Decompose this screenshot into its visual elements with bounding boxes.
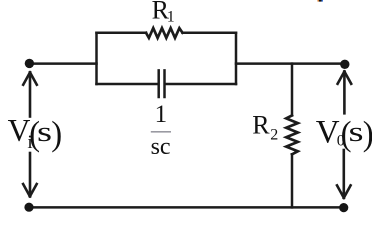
svg-text:): ): [363, 115, 372, 153]
svg-text:sc: sc: [151, 134, 171, 160]
svg-text:): ): [51, 115, 62, 153]
svg-text:1: 1: [167, 9, 175, 26]
svg-text:1: 1: [155, 101, 168, 128]
svg-text:R: R: [252, 111, 270, 140]
svg-text:s: s: [37, 117, 52, 148]
svg-text:2: 2: [270, 127, 278, 144]
svg-text:s: s: [349, 117, 364, 148]
